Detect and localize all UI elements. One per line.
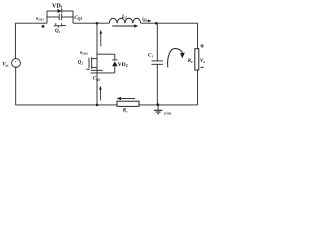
svg-text:iL1: iL1 — [142, 15, 147, 21]
svg-text:Vo: Vo — [200, 59, 205, 64]
svg-text:Rs: Rs — [123, 109, 128, 114]
svg-text:VD1: VD1 — [52, 3, 63, 9]
svg-text:GND: GND — [164, 111, 172, 115]
svg-text:Q2: Q2 — [78, 61, 84, 66]
svg-text:CQ2: CQ2 — [93, 76, 101, 81]
svg-text:Q1: Q1 — [55, 29, 61, 34]
svg-text:+: + — [15, 60, 17, 64]
svg-text:−: − — [15, 65, 17, 69]
svg-text:Vin: Vin — [2, 62, 8, 67]
svg-text:C1: C1 — [148, 54, 153, 59]
svg-text:RL: RL — [188, 59, 193, 64]
